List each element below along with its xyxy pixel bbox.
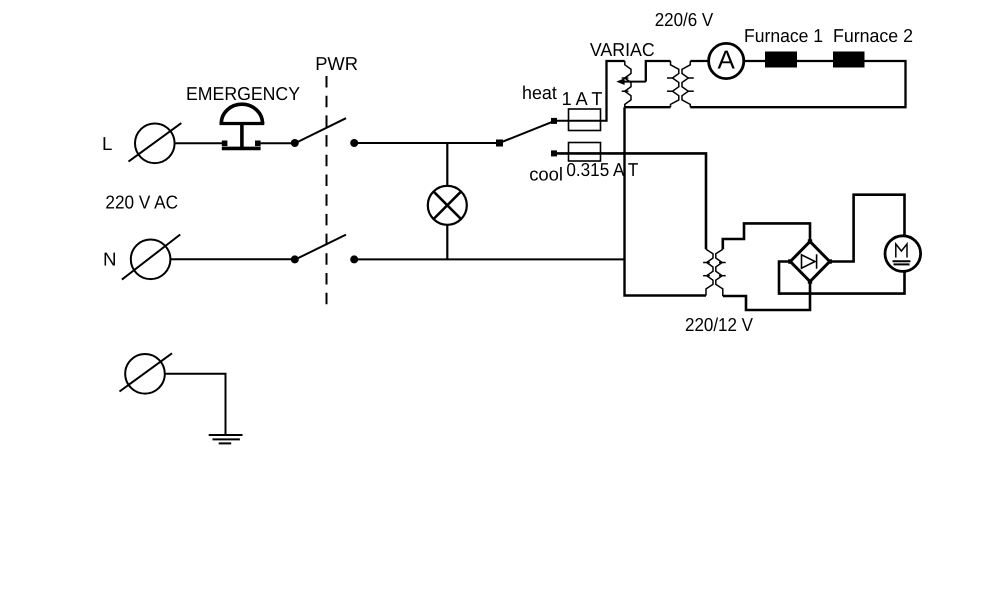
terminal PE (mains socket earth pin) [120, 353, 173, 393]
wire N bus to left drop [354, 258, 624, 260]
wire heat terminal through fuse [553, 120, 607, 122]
svg-text:Furnace 1: Furnace 1 [744, 25, 823, 46]
wire L terminal to emergency button [175, 142, 223, 144]
indicator lamp [428, 186, 467, 225]
svg-text:220 V AC: 220 V AC [105, 192, 178, 213]
node heat terminal [551, 118, 557, 124]
svg-text:0.315 A T: 0.315 A T [566, 159, 638, 180]
svg-text:Furnace 2: Furnace 2 [833, 25, 913, 46]
svg-text:220/12 V: 220/12 V [685, 314, 753, 335]
ground (earth) symbol [209, 435, 243, 443]
wire ammeter to furnace 1 [744, 60, 765, 62]
fuse F2 0.315 A T [569, 143, 601, 162]
wire fuse F1 up to variac top [607, 61, 625, 122]
variac wiper arrow [616, 78, 646, 85]
wire TR2 secondary bottom to bridge rectifier [723, 282, 810, 311]
motor M [885, 236, 921, 272]
heater Furnace 2 [833, 52, 865, 68]
wire TR2 secondary top to bridge rectifier [723, 223, 810, 249]
svg-text:220/6 V: 220/6 V [655, 9, 714, 30]
wire TR1 secondary to ammeter [690, 60, 709, 62]
wire switch L to selector common [354, 142, 499, 144]
transformer TR1 220/6V secondary winding [682, 61, 694, 107]
variac T1 winding [622, 61, 631, 107]
bridge rectifier [788, 239, 832, 283]
wire lamp branch upper [446, 143, 448, 186]
terminal N (mains socket pin N) [122, 235, 180, 280]
wire bridge DC minus to motor return [779, 262, 905, 294]
selector switch blade [500, 121, 554, 143]
node cool terminal [551, 150, 557, 156]
wire furnace 1 to furnace 2 [797, 60, 833, 62]
selector switch heat/cool common node [496, 140, 503, 147]
heater Furnace 1 [765, 52, 797, 68]
svg-text:cool: cool [529, 164, 563, 185]
svg-text:heat: heat [522, 82, 558, 103]
wire cool terminal through fuse to transformer TR2 primary [553, 153, 706, 249]
wire lamp branch lower [446, 225, 448, 260]
svg-text:EMERGENCY: EMERGENCY [186, 83, 301, 104]
mechanical link (dashed) of PWR switch [326, 76, 328, 305]
terminal L (mains socket pin L) [129, 123, 182, 163]
transformer TR1 220/6V primary winding [667, 61, 679, 107]
wire N terminal to switch [170, 258, 292, 260]
svg-text:VARIAC: VARIAC [590, 39, 655, 60]
fuse F1 1 A T [569, 109, 601, 131]
svg-text:PWR: PWR [315, 53, 358, 74]
svg-text:A: A [718, 44, 736, 74]
ammeter A [709, 43, 744, 78]
svg-text:N: N [103, 248, 117, 269]
emergency stop pushbutton (NC mushroom head) [220, 104, 265, 148]
switch PWR pole L (open contact) [291, 118, 358, 147]
svg-text:L: L [102, 133, 112, 154]
transformer TR2 220/12V primary winding [703, 249, 713, 295]
svg-text:1 A T: 1 A T [562, 88, 603, 109]
wire furnace 2 right side return to TR1 secondary bottom [690, 61, 905, 107]
wire emergency button to switch PWR pole L [261, 142, 292, 144]
wire bridge DC plus to motor [830, 195, 905, 262]
transformer TR2 220/12V secondary winding [716, 249, 726, 296]
wire TR1 primary bottom to left drop [625, 106, 671, 108]
wire variac wiper to transformer TR1 primary [646, 61, 671, 82]
wire PE terminal to ground [165, 374, 226, 434]
switch PWR pole N (open contact) [291, 235, 358, 264]
wire left drop to bottom rail [625, 107, 707, 295]
